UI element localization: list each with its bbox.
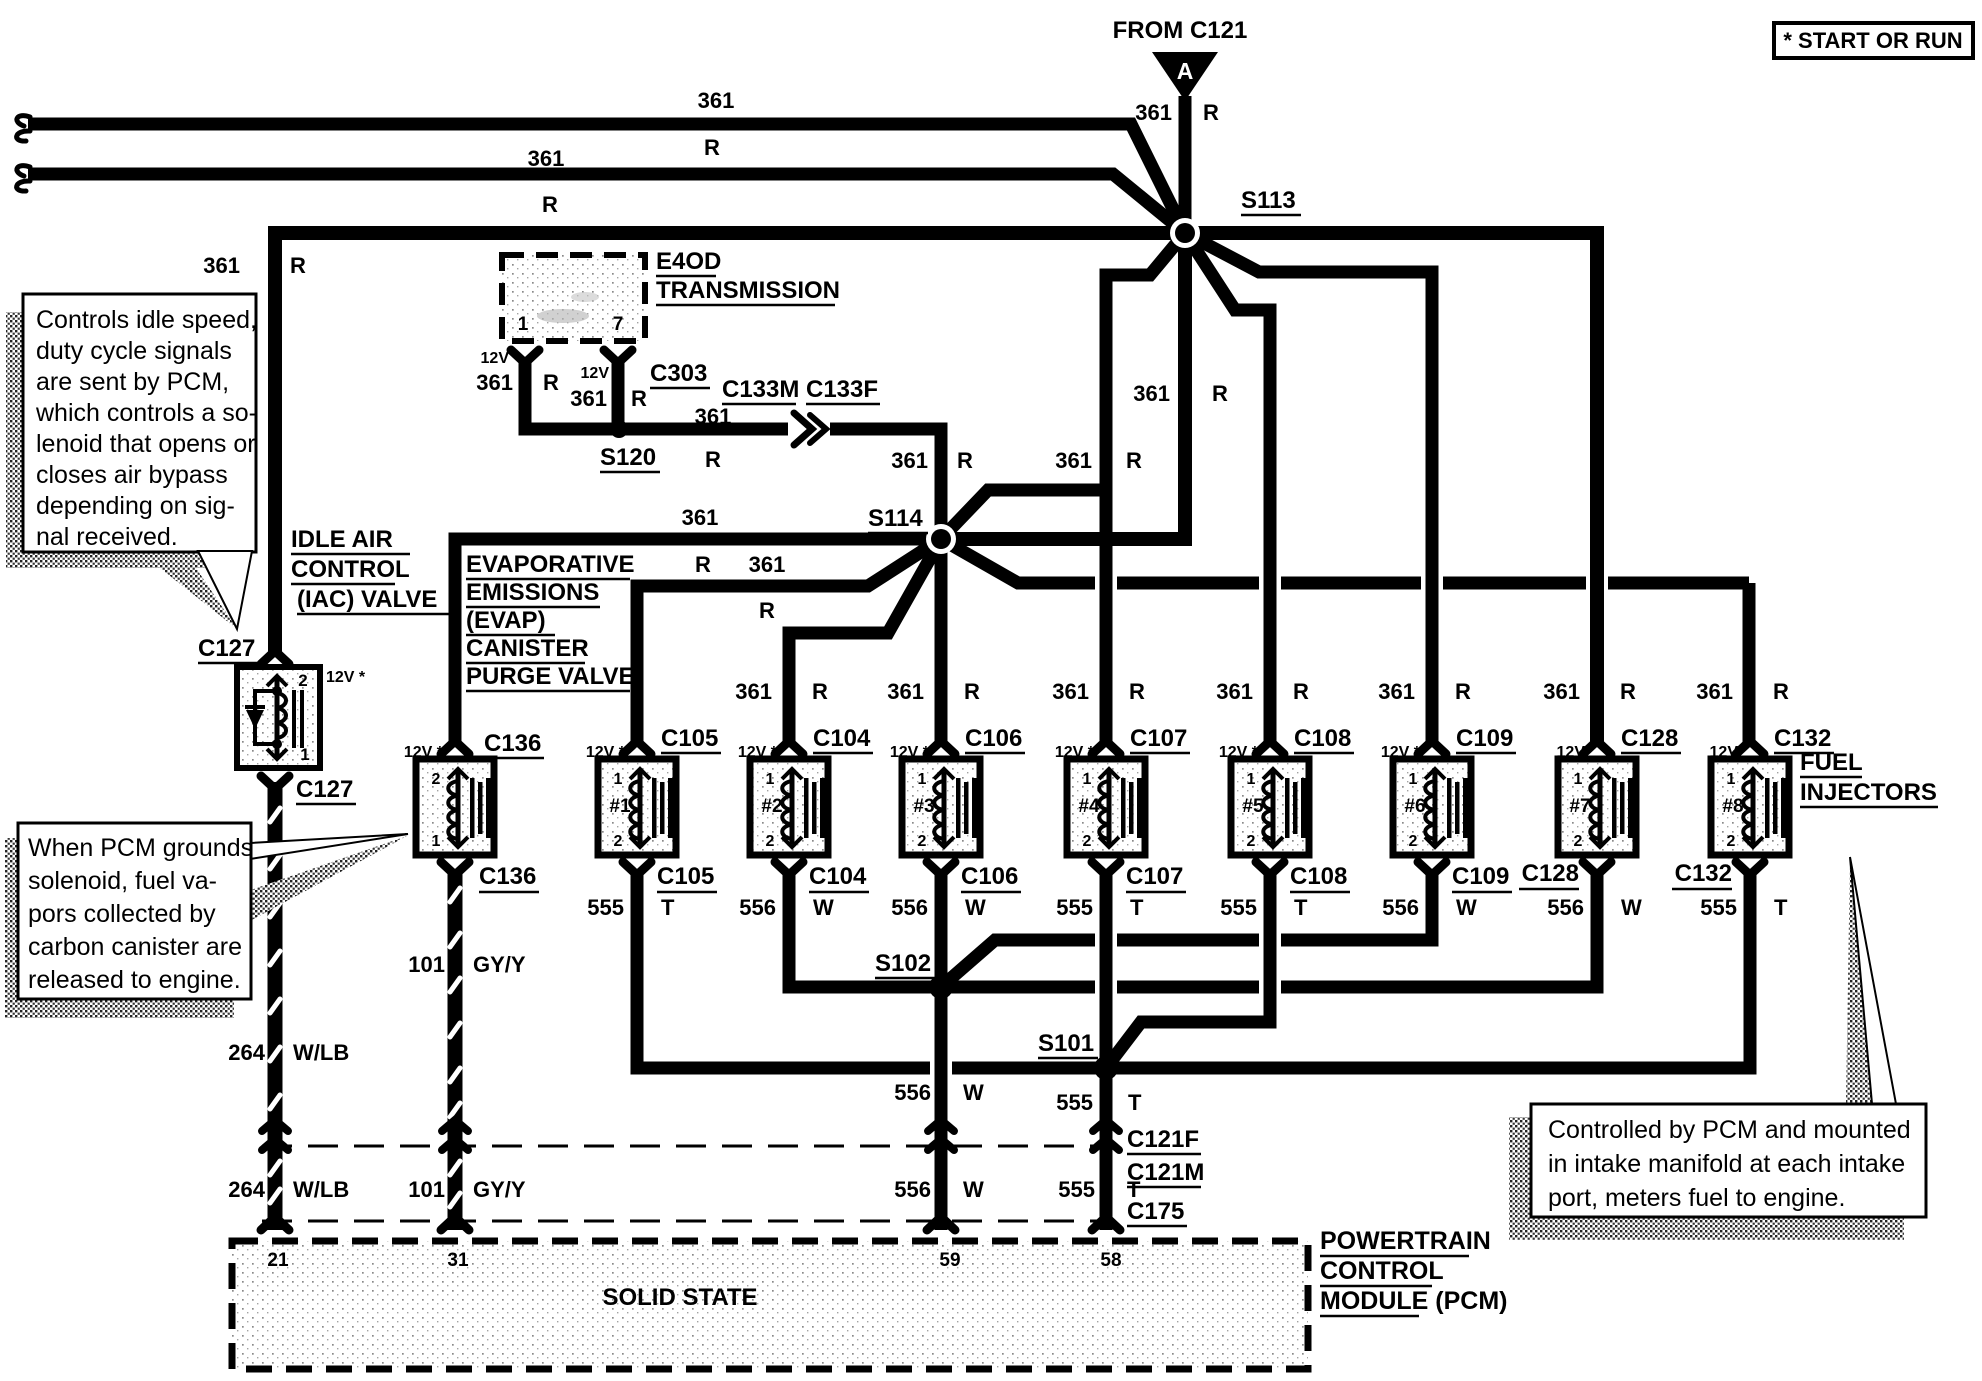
IAC diode branch — [255, 691, 277, 744]
svg-text:1: 1 — [1574, 771, 1583, 788]
svg-text:361: 361 — [1052, 679, 1089, 704]
svg-text:W: W — [1621, 895, 1642, 920]
svg-text:361: 361 — [1378, 679, 1415, 704]
svg-text:Controls idle speed,: Controls idle speed, — [36, 306, 257, 334]
svg-text:#5: #5 — [1242, 796, 1264, 817]
svg-text:FUEL: FUEL — [1800, 749, 1863, 776]
EVAP purge valve C136 connector fork top — [441, 741, 469, 754]
fuel injector 6 C109 connector fork bottom — [1418, 862, 1446, 875]
svg-text:solenoid, fuel va-: solenoid, fuel va- — [28, 867, 217, 895]
svg-text:555: 555 — [587, 895, 624, 920]
svg-text:R: R — [290, 253, 306, 278]
svg-text:C104: C104 — [813, 725, 871, 752]
callout note 2 tail — [250, 834, 408, 859]
fuel injector 8 C132 connector fork bottom — [1736, 862, 1764, 875]
svg-text:12V: 12V — [481, 350, 510, 367]
svg-text:C128: C128 — [1621, 725, 1678, 752]
svg-text:duty cycle signals: duty cycle signals — [36, 337, 232, 365]
fuel injector 1 solenoid C105 — [598, 759, 676, 855]
svg-text:R: R — [1455, 679, 1471, 704]
svg-text:2: 2 — [1083, 833, 1092, 850]
svg-text:MODULE (PCM): MODULE (PCM) — [1320, 1287, 1507, 1315]
IAC internal line and arrows — [275, 678, 280, 757]
svg-text:Controlled by PCM and mounted: Controlled by PCM and mounted — [1548, 1116, 1911, 1144]
svg-text:C109: C109 — [1452, 863, 1509, 890]
note box START OR RUN — [1774, 23, 1973, 58]
wire end fork at PCM x275 — [261, 1217, 289, 1230]
wire 361 R vertical drop to injector 8 C132 — [1743, 583, 1756, 745]
inline connector chevrons at x455 (C121 plane) — [442, 1120, 468, 1131]
svg-text:POWERTRAIN: POWERTRAIN — [1320, 1227, 1491, 1255]
callout note 3 tail — [1850, 857, 1896, 1104]
svg-text:R: R — [1203, 100, 1219, 125]
svg-text:101: 101 — [408, 952, 445, 977]
wire 361 R E4OD pin7 down to S120 — [612, 362, 625, 429]
svg-text:When PCM grounds: When PCM grounds — [28, 834, 253, 862]
splice S101 node — [1094, 1056, 1118, 1080]
fuel injector 7 solenoid C128 — [1558, 759, 1636, 855]
callout note 1 box — [23, 294, 256, 552]
svg-text:361: 361 — [1135, 100, 1172, 125]
svg-text:R: R — [812, 679, 828, 704]
svg-text:2: 2 — [1247, 833, 1256, 850]
wire 556 W injector 3 return to S102 — [935, 869, 948, 987]
svg-text:S113: S113 — [1241, 187, 1296, 214]
callout note 2 box — [18, 823, 251, 999]
svg-text:C104: C104 — [809, 863, 867, 890]
inline connector chevrons at x1106 (C121 plane) — [1093, 1120, 1119, 1131]
inline connector chevrons at x941 (C121 plane) — [928, 1120, 954, 1131]
svg-text:C121F: C121F — [1127, 1126, 1199, 1153]
svg-text:12V: 12V — [581, 365, 610, 382]
svg-text:SOLID STATE: SOLID STATE — [602, 1284, 757, 1311]
svg-text:2: 2 — [918, 833, 927, 850]
callout note 2 tail shadow wedge — [248, 836, 407, 922]
svg-text:T: T — [1294, 895, 1308, 920]
svg-text:are sent by PCM,: are sent by PCM, — [36, 368, 229, 396]
wire 361 R from S114 to injector 1 C105 — [637, 539, 941, 745]
wire end fork at PCM x941 — [927, 1217, 955, 1230]
svg-text:R: R — [1293, 679, 1309, 704]
E4OD pin 1 connector fork — [511, 350, 539, 363]
svg-text:W/LB: W/LB — [293, 1040, 349, 1065]
callout note 3 tail shadow wedge — [1846, 857, 1873, 1104]
svg-text:EMISSIONS: EMISSIONS — [466, 579, 599, 606]
wire 361 R top feed 1 from off-page to S113 — [28, 124, 1185, 233]
svg-text:C106: C106 — [961, 863, 1018, 890]
wire 555 T injector 1 return to S101 (with gap at S102 wire crossing) — [637, 869, 1106, 1068]
wire 361 R top feed 2 from off-page to S113 — [28, 174, 1185, 233]
connector triangle A from C121 — [1152, 52, 1218, 101]
svg-text:R: R — [1620, 679, 1636, 704]
svg-text:port, meters fuel to engine.: port, meters fuel to engine. — [1548, 1184, 1845, 1212]
IAC coil — [277, 693, 286, 738]
wire 556 W injector 2 return to S102 — [789, 869, 941, 987]
svg-text:C303: C303 — [650, 360, 707, 387]
fuel injector 7 C128 connector fork bottom — [1583, 862, 1611, 875]
wire 361 R from S114 to EVAP valve C136 — [455, 539, 941, 745]
svg-text:2: 2 — [614, 833, 623, 850]
wire 361 R from S113 down to injector 4 C107 — [1106, 233, 1185, 745]
svg-text:CONTROL: CONTROL — [1320, 1257, 1444, 1285]
fuel injector 5 C108 connector fork bottom — [1256, 862, 1284, 875]
svg-text:(IAC) VALVE: (IAC) VALVE — [297, 586, 437, 613]
svg-text:2: 2 — [1574, 833, 1583, 850]
svg-text:C127: C127 — [296, 776, 353, 803]
svg-text:361: 361 — [887, 679, 924, 704]
fuel injector 4 C107 connector fork bottom — [1092, 862, 1120, 875]
svg-text:R: R — [1126, 448, 1142, 473]
svg-text:nal received.: nal received. — [36, 523, 178, 551]
svg-text:1: 1 — [918, 771, 927, 788]
svg-text:in intake manifold at each int: in intake manifold at each intake — [1548, 1150, 1905, 1178]
svg-text:#2: #2 — [761, 796, 782, 817]
off-page hook wire 2 — [17, 166, 30, 191]
svg-text:R: R — [1212, 381, 1228, 406]
wire 361 R from S113 to injector 5 C108 — [1185, 233, 1270, 745]
svg-text:R: R — [1129, 679, 1145, 704]
svg-text:E4OD: E4OD — [656, 248, 721, 275]
fuel injector 5 C108 connector fork top — [1256, 741, 1284, 754]
svg-text:#7: #7 — [1569, 796, 1590, 817]
svg-text:7: 7 — [613, 314, 624, 335]
svg-text:12V *: 12V * — [326, 669, 366, 686]
fuel injector 1 C105 connector fork top — [623, 741, 651, 754]
svg-text:555: 555 — [1700, 895, 1737, 920]
svg-text:58: 58 — [1100, 1250, 1121, 1271]
svg-text:R: R — [705, 447, 721, 472]
svg-text:1: 1 — [1727, 771, 1736, 788]
svg-text:361: 361 — [570, 386, 607, 411]
svg-text:C175: C175 — [1127, 1198, 1184, 1225]
svg-text:C133M: C133M — [722, 376, 799, 403]
svg-text:(EVAP): (EVAP) — [466, 607, 546, 634]
svg-text:CANISTER: CANISTER — [466, 635, 589, 662]
svg-text:released to engine.: released to engine. — [28, 966, 241, 994]
EVAP purge valve C136 solenoid — [416, 759, 494, 855]
callout note 3 shadow — [1509, 1117, 1904, 1240]
splice S102 node — [929, 975, 953, 999]
svg-text:depending on sig-: depending on sig- — [36, 492, 235, 520]
svg-text:S102: S102 — [875, 950, 931, 977]
EVAP valve C136 connector fork bottom — [441, 862, 469, 875]
svg-text:W: W — [965, 895, 986, 920]
fuel injector 8 C132 connector fork top — [1736, 741, 1764, 754]
svg-text:101: 101 — [408, 1177, 445, 1202]
wire 361 R from S113 to injector 7 C128 — [1185, 233, 1597, 745]
svg-text:carbon canister are: carbon canister are — [28, 933, 242, 961]
IAC valve C127 connector fork bottom — [261, 776, 289, 789]
svg-text:555: 555 — [1220, 895, 1257, 920]
svg-text:T: T — [1130, 895, 1144, 920]
svg-text:R: R — [1773, 679, 1789, 704]
svg-text:T: T — [1128, 1090, 1142, 1115]
dashed line C175/PCM connector plane — [262, 1220, 1110, 1223]
inline connector chevrons at x275 (C121 plane) — [262, 1120, 288, 1131]
svg-text:C132: C132 — [1675, 860, 1732, 887]
svg-text:31: 31 — [447, 1250, 469, 1271]
fuel injector 3 C106 connector fork bottom — [927, 862, 955, 875]
svg-text:C108: C108 — [1290, 863, 1347, 890]
fuel injector 2 C104 connector fork bottom — [775, 862, 803, 875]
svg-text:W: W — [963, 1080, 984, 1105]
svg-text:1: 1 — [1083, 771, 1092, 788]
svg-text:INJECTORS: INJECTORS — [1800, 779, 1937, 806]
svg-text:361: 361 — [476, 370, 513, 395]
svg-text:361: 361 — [528, 146, 565, 171]
wire end fork at PCM x1106 — [1092, 1217, 1120, 1230]
svg-text:R: R — [957, 448, 973, 473]
svg-text:1: 1 — [300, 745, 309, 764]
svg-text:21: 21 — [267, 1250, 289, 1271]
E4OD interior scan smudge — [537, 309, 589, 323]
fuel injector 7 C128 connector fork top — [1583, 741, 1611, 754]
splice S120 node — [610, 420, 628, 438]
svg-text:264: 264 — [228, 1177, 265, 1202]
svg-text:R: R — [695, 552, 711, 577]
fuel injector 3 solenoid C106 — [902, 759, 980, 855]
svg-text:556: 556 — [1382, 895, 1419, 920]
fuel injector 3 C106 connector fork top — [927, 741, 955, 754]
wire 361 R from S114 to injector 2 C104 — [789, 539, 941, 745]
svg-text:#3: #3 — [913, 796, 934, 817]
svg-text:C107: C107 — [1130, 725, 1187, 752]
svg-text:C109: C109 — [1456, 725, 1513, 752]
wire 361 R from S120 to inline connector C133 — [619, 423, 788, 436]
wire 555 T injector 8 return to S101 — [1106, 869, 1750, 1068]
svg-text:C136: C136 — [484, 730, 541, 757]
svg-text:#4: #4 — [1078, 796, 1100, 817]
inline connector C133M C133F chevrons — [794, 413, 812, 445]
svg-text:361: 361 — [891, 448, 928, 473]
svg-text:GY/Y: GY/Y — [473, 952, 526, 977]
svg-text:361: 361 — [1543, 679, 1580, 704]
svg-text:T: T — [661, 895, 675, 920]
wire 101 GY/Y from C136 to PCM pin 31 — [448, 869, 463, 1230]
svg-text:555: 555 — [1058, 1177, 1095, 1202]
wire 555 T injector 5 return to S101 — [1106, 869, 1270, 1068]
svg-text:361: 361 — [1696, 679, 1733, 704]
fuel injector 5 solenoid C108 — [1231, 759, 1309, 855]
svg-text:2: 2 — [1727, 833, 1736, 850]
svg-text:C108: C108 — [1294, 725, 1351, 752]
svg-text:C105: C105 — [661, 725, 718, 752]
svg-text:S101: S101 — [1038, 1030, 1094, 1057]
svg-text:#1: #1 — [609, 796, 631, 817]
svg-text:closes air bypass: closes air bypass — [36, 461, 228, 489]
svg-text:556: 556 — [894, 1177, 931, 1202]
svg-text:C136: C136 — [479, 863, 536, 890]
svg-text:2: 2 — [766, 833, 775, 850]
svg-text:1: 1 — [614, 771, 623, 788]
svg-text:GY/Y: GY/Y — [473, 1177, 526, 1202]
callout note 1 shadow — [6, 312, 236, 568]
svg-text:C105: C105 — [657, 863, 714, 890]
svg-text:PURGE VALVE: PURGE VALVE — [466, 663, 634, 690]
svg-text:556: 556 — [894, 1080, 931, 1105]
svg-text:IDLE AIR: IDLE AIR — [291, 526, 393, 553]
fuel injector 1 C105 connector fork bottom — [623, 862, 651, 875]
fuel injector 8 solenoid C132 — [1711, 759, 1789, 855]
svg-text:R: R — [543, 370, 559, 395]
svg-text:361: 361 — [1216, 679, 1253, 704]
svg-text:lenoid that opens or: lenoid that opens or — [36, 430, 256, 458]
svg-text:C127: C127 — [198, 635, 255, 662]
svg-text:556: 556 — [739, 895, 776, 920]
svg-text:C106: C106 — [965, 725, 1022, 752]
wire 361 R S114 tap to injector 4 wire — [941, 490, 1106, 539]
svg-text:555: 555 — [1056, 895, 1093, 920]
svg-text:555: 555 — [1056, 1090, 1093, 1115]
wire 361 R from S113 down to S114 (via vertical x1185) — [941, 233, 1185, 539]
svg-text:S114: S114 — [868, 505, 923, 532]
E4OD pin 7 connector fork — [604, 350, 632, 363]
svg-text:R: R — [704, 135, 720, 160]
svg-text:S120: S120 — [600, 444, 656, 471]
svg-text:R: R — [631, 386, 647, 411]
E4OD transmission dashed box — [502, 255, 645, 341]
IAC valve C127 connector fork top — [261, 651, 289, 664]
callout note 1 tail shadow wedge — [160, 568, 237, 629]
fuel injector 2 C104 connector fork top — [775, 741, 803, 754]
svg-text:which controls a so-: which controls a so- — [35, 399, 257, 427]
svg-text:264: 264 — [228, 1040, 265, 1065]
svg-text:W: W — [963, 1177, 984, 1202]
fuel injector 4 C107 connector fork top — [1092, 741, 1120, 754]
svg-text:361: 361 — [749, 552, 786, 577]
IAC valve C127 box — [237, 667, 320, 768]
fuel injector 4 solenoid C107 — [1067, 759, 1145, 855]
wire end fork at PCM x455 — [441, 1217, 469, 1230]
svg-text:361: 361 — [735, 679, 772, 704]
callout note 2 shadow — [5, 838, 234, 1018]
wire 555 T injector 4 return to S101 — [1100, 869, 1113, 1068]
svg-text:R: R — [759, 598, 775, 623]
svg-text:556: 556 — [1547, 895, 1584, 920]
svg-text:2: 2 — [1409, 833, 1418, 850]
svg-text:pors collected by: pors collected by — [28, 900, 216, 928]
svg-text:#8: #8 — [1722, 796, 1743, 817]
svg-text:* START OR RUN: * START OR RUN — [1783, 28, 1962, 53]
svg-text:T: T — [1774, 895, 1788, 920]
wire 361 R from S113 to injector 6 C109 — [1185, 233, 1432, 745]
svg-text:361: 361 — [695, 404, 732, 429]
svg-text:CONTROL: CONTROL — [291, 556, 410, 583]
svg-text:361: 361 — [1133, 381, 1170, 406]
white hatch marks on 264 wire — [270, 808, 280, 1203]
callout note 1 tail — [198, 551, 252, 629]
svg-text:1: 1 — [432, 833, 441, 850]
fuel injector 2 solenoid C104 — [750, 759, 828, 855]
wire 264 W/LB from C127 to PCM pin 21 — [268, 782, 283, 1230]
svg-text:A: A — [1177, 58, 1194, 84]
svg-text:TRANSMISSION: TRANSMISSION — [656, 277, 840, 304]
dashed line C121 connector plane — [262, 1145, 1110, 1148]
svg-text:1: 1 — [1409, 771, 1418, 788]
PCM dashed box — [232, 1241, 1308, 1369]
svg-text:C133F: C133F — [806, 376, 878, 403]
wire 361 R from C133 connector to S114 — [830, 429, 941, 539]
svg-text:59: 59 — [939, 1250, 960, 1271]
wire 556 W injector 7 return to S102 (bus with crossover gaps) — [941, 869, 1597, 987]
svg-text:556: 556 — [891, 895, 928, 920]
svg-text:1: 1 — [1247, 771, 1256, 788]
white hatch marks on 101 wire — [450, 888, 460, 1207]
svg-text:361: 361 — [203, 253, 240, 278]
wire 361 R E4OD pin1 down to S120 — [525, 362, 613, 429]
splice S114 node — [926, 524, 956, 554]
svg-text:R: R — [542, 192, 558, 217]
svg-text:C128: C128 — [1522, 860, 1579, 887]
svg-text:W/LB: W/LB — [293, 1177, 349, 1202]
svg-text:361: 361 — [1055, 448, 1092, 473]
svg-text:1: 1 — [518, 314, 529, 335]
wire 556 W from S102 to PCM pin 59 — [935, 987, 948, 1230]
svg-text:#6: #6 — [1404, 796, 1425, 817]
svg-text:2: 2 — [432, 771, 441, 788]
callout note 3 box — [1531, 1104, 1926, 1217]
svg-text:361: 361 — [698, 88, 735, 113]
svg-text:R: R — [964, 679, 980, 704]
wire 555 T from S101 to PCM pin 58 — [1100, 1068, 1113, 1230]
svg-text:2: 2 — [298, 671, 307, 690]
off-page hook wire 1 — [17, 116, 30, 141]
wire 361 R from S114 to injector 3 C106 — [935, 539, 948, 745]
svg-text:1: 1 — [766, 771, 775, 788]
fuel injector 6 solenoid C109 — [1393, 759, 1471, 855]
svg-text:FROM C121: FROM C121 — [1113, 17, 1248, 44]
splice S113 node — [1170, 218, 1200, 248]
wire 361 R from S113 to C127 IAC valve — [275, 233, 1185, 652]
wire 556 W injector 6 return to S102 (bus with crossover gaps) — [941, 869, 1432, 987]
IAC core bars — [292, 690, 296, 748]
wire 361 R from S114 to injector 8 C132 (diagonal+horizontal with crossover gaps) — [941, 539, 1095, 583]
svg-text:C107: C107 — [1126, 863, 1183, 890]
svg-text:W: W — [813, 895, 834, 920]
svg-text:W: W — [1456, 895, 1477, 920]
svg-text:EVAPORATIVE: EVAPORATIVE — [466, 551, 634, 578]
fuel injector 6 C109 connector fork top — [1418, 741, 1446, 754]
svg-text:361: 361 — [682, 505, 719, 530]
wire 361 R from C121 triangle to S113 — [1179, 96, 1192, 233]
svg-text:C132: C132 — [1774, 725, 1831, 752]
